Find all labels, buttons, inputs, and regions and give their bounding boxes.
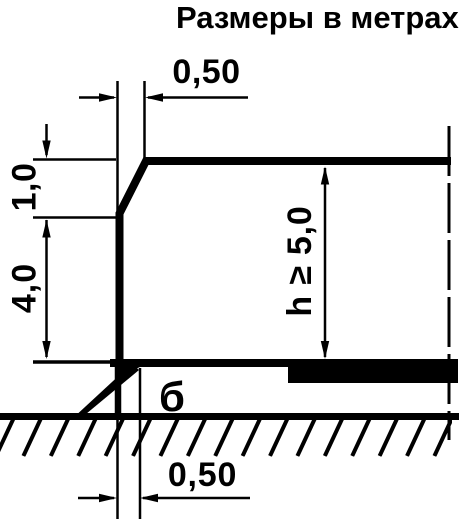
dimension label 0,50 (bottom) [168, 456, 237, 494]
bottom extension line x=117 [116, 368, 119, 519]
svg-text:б: б [159, 373, 185, 420]
bottom extension line x=140 [139, 368, 142, 519]
extension line H1 (y=159.5) [33, 158, 116, 161]
h >= 5,0 dimension line with arrows [321, 167, 329, 360]
dimension label h >= 5,0 (rotated) [281, 205, 319, 316]
extension line V2 (top, x=144.5) [143, 81, 146, 160]
clearance gauge outline (thick): vertical, bevel, top edge [120, 161, 452, 364]
slope corner fill [120, 359, 140, 376]
ground hatching [0, 419, 452, 457]
bottom dimension line, left segment with right-pointing arrow [78, 494, 117, 503]
svg-text:Размеры в метрах: Размеры в метрах [176, 0, 460, 35]
svg-text:1,0: 1,0 [6, 163, 44, 212]
title: Размеры в метрах [176, 0, 460, 35]
dimension label 1,0 (rotated) [6, 163, 44, 212]
4,0 dimension line with arrows both ends (also serves as 1,0 lower arrow) [42, 220, 50, 360]
label б [159, 373, 185, 420]
extension line V1 (top, x=117) [116, 81, 119, 211]
roadway pavement bar (extra thick) [288, 367, 458, 383]
extension line H2 (y=217.5) [33, 216, 117, 219]
road surface line (thick) [110, 359, 458, 367]
bottom dimension line, right segment with left-pointing arrow [140, 494, 250, 503]
svg-text:0,50: 0,50 [168, 456, 237, 494]
shoulder edge vertical (below road to ground) [115, 364, 122, 416]
ground line [0, 413, 459, 420]
svg-text:h ≥ 5,0: h ≥ 5,0 [281, 205, 319, 316]
top dimension line, right segment with left-pointing arrow [145, 93, 248, 102]
top dimension line, left segment with right-pointing arrow [79, 93, 117, 102]
embankment slope line (б) [72, 364, 139, 420]
extension line H3 (y=362, left of road) [33, 360, 112, 364]
dimension label 0,50 (top) [172, 53, 240, 91]
svg-text:0,50: 0,50 [172, 53, 240, 91]
1,0 upper outside arrow (pointing down) [42, 124, 50, 159]
dimension label 4,0 (rotated) [6, 263, 44, 313]
right boundary dashed line [448, 126, 451, 440]
svg-text:4,0: 4,0 [6, 263, 44, 313]
